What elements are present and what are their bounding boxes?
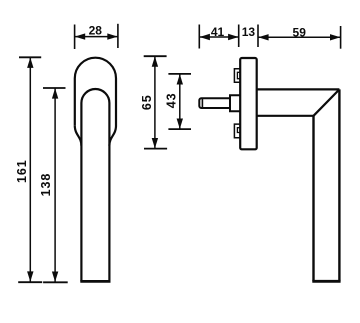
svg-text:43: 43	[165, 93, 179, 109]
dimension 59 extension line right	[340, 26, 342, 49]
dimension 41 extension line left	[198, 25, 200, 49]
handle front view grip outline	[81, 89, 109, 281]
dimension 138 bottom tick	[43, 281, 68, 283]
dimension 138 line	[54, 88, 56, 282]
dimension 161 top tick	[19, 56, 41, 58]
side view rosette plate	[240, 58, 257, 149]
side view handle grip bottom edge	[312, 280, 340, 283]
dimension 13 extension line right	[257, 25, 259, 48]
svg-text:41: 41	[211, 25, 225, 39]
side view handle corner mitre diagonal	[314, 89, 340, 115]
svg-text:59: 59	[293, 25, 307, 39]
svg-text:13: 13	[242, 25, 256, 39]
dimension 43 arrow down	[177, 119, 183, 129]
side view bottom clip tab notch	[237, 128, 240, 133]
dimension 28 extension line right	[117, 24, 119, 48]
side view handle neck bottom edge	[257, 115, 314, 117]
dimension 28 arrow right	[107, 33, 117, 39]
dimension 161 arrow down	[27, 271, 33, 281]
dimension 59 arrow right	[330, 34, 340, 40]
svg-text:138: 138	[39, 173, 53, 197]
handle front view outer taper left	[75, 126, 82, 146]
dimension 65 arrow up	[152, 56, 158, 66]
dimension 28 extension line left	[74, 25, 76, 50]
side view top clip tab notch	[237, 72, 240, 78]
dimension 43 line	[179, 74, 181, 129]
side view spindle shaft	[199, 98, 230, 108]
dimension 65 bottom tick	[144, 148, 167, 150]
dimension 59 arrow left	[258, 34, 268, 40]
side view bottom clip tab	[234, 124, 240, 138]
svg-text:28: 28	[89, 23, 103, 37]
side view spindle boss	[230, 95, 240, 111]
handle front view grip bottom edge	[80, 280, 110, 283]
dimension 138 top tick	[43, 87, 66, 89]
dimension 161 bottom tick	[18, 281, 42, 283]
dimension 43 arrow up	[177, 74, 183, 84]
dimension 65 line	[154, 57, 156, 149]
dimension 161 line	[29, 58, 31, 282]
side view handle neck top edge	[257, 88, 339, 90]
dimension 28 arrow left	[75, 33, 85, 39]
dimension 138 arrow down	[52, 272, 58, 282]
dimension 59 line	[258, 36, 340, 38]
dimension 41 line	[200, 36, 239, 38]
handle front view outer outline	[75, 58, 116, 146]
dimension 161 arrow up	[27, 58, 33, 68]
side view handle grip right edge	[338, 89, 340, 281]
dimension 43 bottom tick	[168, 128, 191, 130]
svg-text:161: 161	[15, 159, 29, 183]
side view handle grip left edge	[312, 116, 314, 281]
dimension 41 arrow left	[200, 34, 210, 40]
dimension 41/13 extension line middle	[238, 25, 240, 48]
svg-text:65: 65	[140, 94, 154, 110]
dimension 65 arrow down	[152, 138, 158, 148]
side view spindle tip facet	[201, 99, 203, 108]
side view top clip tab	[234, 69, 240, 83]
dimension 43 top tick	[168, 73, 191, 75]
dimension 41 arrow right	[228, 34, 238, 40]
dimension 28 line	[75, 36, 118, 38]
dimension 138 arrow up	[52, 88, 58, 98]
dimension 65 top tick	[144, 55, 167, 57]
